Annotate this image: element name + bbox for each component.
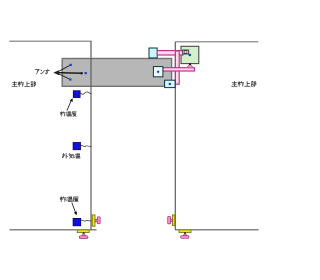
anchor leader arrows [58,65,82,80]
squiggle wire top [81,92,92,94]
label アンカ [35,69,49,74]
duct B: horizontal cable run lower [163,68,195,71]
leader arrow to upper sensor [67,101,71,111]
sensor: girder temperature lower (blue square) [73,218,81,226]
bearing right: yellow plate [172,215,174,226]
wire: left pier vertical line [90,41,92,230]
wire: right pier top line [175,41,258,43]
pedestal right: pin dot [184,232,186,234]
sensor: outside air temperature (blue square) [73,142,81,149]
duct B: triangle tap to logger [187,64,193,68]
anchor dot black middle [81,72,83,74]
girder (gray beam) [62,59,171,87]
anchor dot blue middle [85,72,87,74]
data logger green box U1 [181,46,199,63]
pedestal right: pink base [181,236,189,239]
pedestal right: pink wedge [183,233,187,236]
wire: left bay bottom line [10,229,97,231]
label 桁温度 (lower) [60,197,78,202]
sensor box B1 in beam [153,67,163,77]
sensor box B2 at beam corner [165,80,176,87]
bearing left: yellow plate [92,215,95,226]
connector icon in logger [183,50,189,54]
anchor dot blue bottom [69,78,71,80]
pedestal left: pin dot [83,232,85,234]
leader arrow to lower sensor [72,203,76,213]
pedestal left: pink wedge [82,233,86,236]
bearing right: pink clamp bar [168,217,171,224]
blue dot B2 [169,83,171,85]
bearing left: pink clamp bar [97,217,100,224]
duct B: pin dot at logger [189,63,191,65]
pedestal left: pink base [79,236,88,239]
sensor: girder temperature upper (blue square) [73,91,80,98]
squiggle wire middle [81,145,92,146]
label 主桁上部 (left) [12,81,36,86]
label 外気温 [62,153,80,158]
duct: vertical cable run [175,51,179,84]
bearing left: pink clamp stem [95,219,97,221]
blue dot B1 [157,71,159,73]
bearing right: pink clamp stem [170,219,172,221]
label 主桁上部 (right) [232,81,256,86]
label 桁温度 (upper) [60,112,76,117]
wire: left pier top line [9,40,91,42]
wire: right bay bottom line [175,229,258,231]
pedestal left: yellow plate [77,230,89,233]
squiggle wire bottom [81,220,92,221]
cyan device box [149,48,157,58]
pedestal right: yellow plate [179,230,191,233]
wire: right pier vertical line [174,42,176,230]
blue dot in logger [189,54,192,57]
duct A: horizontal cable run to logger [157,51,183,55]
anchor dot blue top [70,64,72,66]
